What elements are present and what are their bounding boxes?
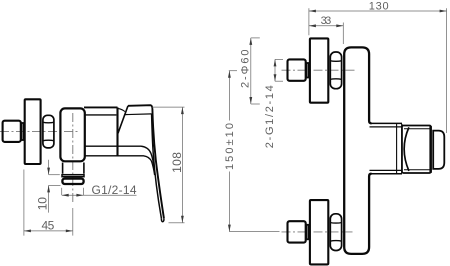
cap dome arc — [404, 127, 409, 170]
aerator nut — [62, 179, 83, 184]
dimension 108: arrow bottom — [181, 216, 184, 223]
hex nut (side) — [43, 115, 54, 148]
dimension 2-G1/2-14: arrow bottom — [274, 74, 277, 81]
dimension 2-PHI60: arrow bottom — [249, 97, 252, 104]
dimension 45: dimension line — [24, 230, 73, 232]
escutcheon ring vertical 1 — [396, 123, 398, 173]
dimension 2-G1/2-14: tick bottom — [275, 80, 283, 82]
blade inner edge — [152, 114, 162, 218]
escutcheon curve lower (from body) — [85, 156, 155, 175]
lever left slant edge — [118, 106, 128, 133]
valve body (side) — [60, 108, 84, 161]
wall escutcheon plate (side) — [25, 99, 41, 164]
cap inner line top — [404, 128, 430, 130]
bottom hex nut facet upper — [330, 222, 342, 225]
dimension 150+-10: dimension line lower — [228, 172, 230, 232]
dimension 33: arrow left — [309, 24, 316, 27]
dimension 2-G1/2-14: arrow top — [274, 59, 277, 66]
dimension G1/2-14: arrow right — [76, 194, 83, 197]
dimension 130: arrow left — [309, 10, 316, 13]
dimension 108: dimension line — [181, 107, 183, 223]
svg-text:33: 33 — [321, 15, 332, 27]
dimension 2-G1/2-14: dimension line — [274, 59, 276, 81]
svg-text:130: 130 — [369, 0, 389, 12]
dimension 150+-10: arrow bottom — [228, 225, 231, 232]
svg-text:G1/2-14: G1/2-14 — [92, 183, 137, 197]
handle arm bottom edge — [85, 114, 117, 116]
dimension 108: extension line bottom — [169, 222, 185, 224]
housing top line 1 — [372, 122, 403, 124]
top escutcheon flange — [310, 38, 328, 102]
housing bottom line 1 — [370, 169, 403, 171]
handle cap outline — [402, 126, 431, 174]
dimension 33: arrow right — [336, 24, 343, 27]
connector nub between cylinder and escutcheon — [21, 123, 23, 140]
top hex nut facet lower — [330, 78, 342, 81]
bottom escutcheon flange — [310, 200, 328, 264]
svg-text:2-G1/2-14: 2-G1/2-14 — [264, 85, 276, 148]
mixer body bar outline with housing fillets — [344, 47, 371, 254]
centerline vertical (outlet axis, left view) — [72, 113, 74, 204]
dimension 2-PHI60: tick top — [251, 37, 260, 39]
svg-text:108: 108 — [170, 152, 184, 173]
bottom hex nut facet lower — [330, 240, 342, 243]
dimension 10: upper reference tick — [49, 174, 60, 176]
dimension 10: lower reference tick — [49, 184, 61, 186]
outlet ring — [62, 175, 84, 177]
outlet stem (thread) — [63, 163, 84, 174]
centerline top inlet — [282, 69, 355, 71]
dimension 33: dimension line — [309, 25, 343, 27]
dimension 108: extension line top — [152, 106, 184, 108]
dimension G1/2-14: extension line left — [61, 188, 63, 195]
lever inner top line — [125, 113, 152, 116]
hex nut facet line lower — [42, 139, 54, 142]
blade outer edge — [152, 109, 164, 218]
dimension 150+-10: bottom reference line — [229, 231, 279, 233]
dimension 130: extension line right — [446, 8, 448, 133]
lever top edge with corner — [128, 105, 152, 109]
handle arm end vertical — [116, 107, 118, 155]
handle cap right edge thick — [429, 126, 431, 173]
dimension 130: dimension line — [309, 10, 447, 12]
bottom hex nut — [330, 214, 341, 251]
dimension 45: arrow right — [66, 230, 73, 233]
svg-text:45: 45 — [42, 219, 55, 233]
dimension 10: lower leader — [48, 185, 50, 212]
dimension 2-PHI60: arrow top — [249, 38, 252, 45]
centerline bottom inlet — [282, 231, 353, 233]
inlet thread cylinder (side) — [3, 121, 21, 142]
dimension 33: extension line right — [342, 23, 344, 45]
dimension 10: lower arrow (up) — [47, 185, 50, 192]
svg-text:10: 10 — [35, 197, 49, 211]
dimension 45: arrow left — [24, 230, 31, 233]
centerline horizontal (inlet axis, left view) — [0, 130, 78, 132]
escutcheon ring vertical 2 — [401, 124, 403, 173]
svg-text:150±10: 150±10 — [224, 123, 236, 170]
cap curve at arm — [118, 108, 125, 111]
housing top line 2 — [370, 126, 403, 128]
hex nut facet line upper — [42, 121, 54, 124]
dimension 150+-10: dimension line upper — [228, 71, 230, 121]
lever tip (plan) — [433, 131, 444, 169]
dimension 130: arrow right — [440, 10, 447, 13]
bottom connector nub — [307, 225, 309, 240]
bottom inlet thread cylinder — [288, 221, 306, 242]
dimension 2-PHI60: tick bottom — [251, 103, 260, 105]
cap inner line bottom — [404, 169, 430, 171]
dimension 45: extension line right (outlet centerline) — [72, 208, 74, 236]
dimension 10: upper leader — [48, 160, 50, 175]
dimension 2-G1/2-14: tick top — [275, 58, 283, 60]
blade tip — [161, 218, 164, 222]
top hex nut — [330, 52, 341, 89]
dimension 10: upper arrow (down) — [47, 168, 50, 175]
dimension G1/2-14: extension line right — [82, 188, 84, 195]
top hex nut facet upper — [330, 60, 342, 63]
top inlet thread cylinder — [288, 59, 306, 80]
dimension G1/2-14: dimension line — [62, 194, 137, 196]
handle arm top edge — [84, 106, 118, 108]
dimension 2-PHI60: dimension line — [250, 38, 252, 104]
dimension 150+-10: arrow top — [228, 71, 231, 78]
dimension 150+-10: tick top — [229, 70, 237, 72]
dimension 108: arrow top — [181, 107, 184, 114]
dimension 130: extension line left — [308, 8, 310, 35]
dimension G1/2-14: arrow left — [62, 194, 69, 197]
housing bottom line 2 — [372, 173, 403, 175]
top connector nub — [307, 63, 309, 78]
svg-text:2-Φ60: 2-Φ60 — [239, 50, 251, 89]
escutcheon curve upper (from body) — [85, 146, 154, 169]
dimension 45: extension line left — [23, 170, 25, 236]
